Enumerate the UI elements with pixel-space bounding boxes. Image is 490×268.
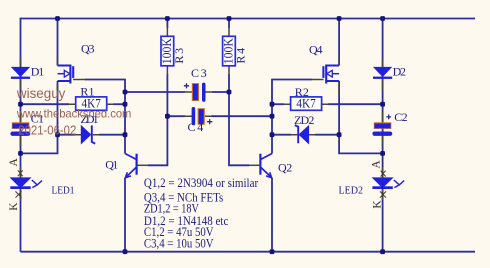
svg-text:K: K bbox=[8, 202, 20, 211]
wire R3 column to Q1 base bbox=[148, 74, 167, 165]
label Q1 bbox=[105, 158, 118, 172]
junction dot left column R1 bbox=[18, 102, 23, 107]
LED1 pin number marks bbox=[16, 170, 23, 197]
zener diode ZD2 bbox=[290, 125, 316, 143]
note line 4 bbox=[144, 214, 229, 228]
LED2 bbox=[372, 167, 404, 200]
svg-text:A: A bbox=[8, 158, 20, 167]
svg-text:2021-06-02: 2021-06-02 bbox=[18, 124, 76, 138]
junction dot top rail R3 bbox=[165, 16, 170, 21]
junction dot left column LED1 anode bbox=[18, 151, 23, 156]
capacitor C3 bbox=[184, 83, 213, 102]
watermark www.thebackshed.com bbox=[16, 107, 131, 121]
svg-text:LED1: LED1 bbox=[52, 185, 75, 197]
label C2 bbox=[394, 110, 407, 124]
label LED2 pin K bbox=[372, 200, 384, 209]
diode D2 bbox=[373, 59, 392, 90]
wire R4 top pin stub bbox=[228, 19, 230, 29]
svg-text:R3: R3 bbox=[172, 48, 186, 64]
junction dot node X1 R1 bbox=[123, 102, 128, 107]
note line 5 bbox=[144, 225, 214, 239]
watermark date 2021-06-02 bbox=[18, 124, 76, 138]
note line 2 bbox=[144, 191, 224, 205]
wire Q3 source to LED1 anode node bbox=[21, 135, 58, 154]
junction dot R3 C4 bbox=[165, 114, 170, 119]
junction dot top rail R4 bbox=[227, 16, 232, 21]
wire ZD1 row bbox=[58, 134, 126, 136]
svg-text:C3: C3 bbox=[191, 66, 207, 80]
junction dot right column LED2 anode bbox=[380, 151, 385, 156]
svg-text:C4: C4 bbox=[188, 120, 204, 134]
label LED1 pin K bbox=[8, 202, 20, 211]
wire R1 row bbox=[21, 103, 126, 105]
svg-text:A: A bbox=[370, 160, 382, 169]
svg-text:R1: R1 bbox=[80, 84, 94, 98]
label Q3 bbox=[81, 41, 95, 55]
svg-text:D1: D1 bbox=[31, 64, 44, 78]
capacitor C1 bbox=[10, 112, 30, 146]
wire bottom ground rail bbox=[21, 251, 476, 253]
svg-text:Q1: Q1 bbox=[105, 158, 118, 172]
label LED1 bbox=[52, 185, 75, 197]
wire R3 top pin stub bbox=[166, 19, 168, 29]
svg-text:R4: R4 bbox=[234, 48, 248, 64]
junction dot top rail Q3 bbox=[55, 16, 60, 21]
label D2 bbox=[393, 65, 406, 79]
diode D1 bbox=[11, 59, 30, 90]
label R1 bbox=[80, 84, 94, 98]
junction dot bottom rail Q2 bbox=[270, 249, 275, 254]
label C4 bbox=[188, 120, 204, 134]
svg-text:Q3: Q3 bbox=[81, 41, 95, 55]
capacitor C4 bbox=[184, 107, 212, 125]
wire R4 column to Q2 base bbox=[229, 74, 249, 165]
svg-text:ZD2: ZD2 bbox=[294, 113, 314, 127]
junction dot right column R2 bbox=[380, 102, 385, 107]
junction dot R4 C3 bbox=[227, 90, 232, 95]
label ZD2 bbox=[294, 113, 314, 127]
junction dot node X2 ZD2 bbox=[270, 132, 275, 137]
wire R2 row bbox=[272, 103, 383, 105]
transistor Q3 NCh FET bbox=[58, 58, 87, 95]
resistor R3 bbox=[160, 27, 174, 75]
wire node X2 column bbox=[271, 104, 273, 153]
label ZD1 bbox=[80, 112, 98, 126]
resistor R4 bbox=[222, 27, 236, 75]
watermark wiseguy bbox=[16, 85, 65, 101]
junction dot Q3 source ZD1 bbox=[55, 132, 60, 137]
wire Q3 drain-source column bbox=[57, 19, 59, 135]
wire Q4 source to LED2 anode node bbox=[339, 135, 383, 154]
svg-text:Q2: Q2 bbox=[278, 161, 292, 175]
junction dot bottom rail LED2 bbox=[380, 249, 385, 254]
junction dot node X2 C4 bbox=[270, 114, 275, 119]
wire Q1 emitter to bottom rail bbox=[124, 178, 126, 252]
junction dot node X1 ZD1 bbox=[123, 132, 128, 137]
wire Q2 emitter to bottom rail bbox=[271, 178, 273, 252]
label D1 bbox=[31, 64, 44, 78]
svg-text:LED2: LED2 bbox=[339, 185, 364, 197]
svg-text:R2: R2 bbox=[295, 85, 309, 99]
label R4 bbox=[234, 48, 248, 64]
transistor Q4 NCh FET bbox=[312, 58, 339, 95]
wire ZD2 row bbox=[272, 134, 339, 136]
LED1 bbox=[10, 167, 42, 200]
label C3 bbox=[191, 66, 207, 80]
label LED2 bbox=[339, 185, 364, 197]
junction dot Q4 source ZD2 bbox=[337, 132, 342, 137]
junction dot top rail Q4 bbox=[337, 16, 342, 21]
svg-text:K: K bbox=[372, 200, 384, 209]
svg-text:C3,4 = 10u 50V: C3,4 = 10u 50V bbox=[144, 236, 214, 250]
note line 3 bbox=[144, 202, 199, 216]
label C1 bbox=[31, 112, 44, 126]
label Q2 bbox=[278, 161, 292, 175]
wire Q4 gate lead to node X2 bbox=[272, 80, 312, 105]
zener diode ZD1 bbox=[74, 125, 100, 143]
wire C4 row bbox=[167, 115, 272, 117]
junction dot top rail D2 bbox=[380, 16, 385, 21]
label LED2 pin A bbox=[370, 160, 382, 169]
note line 1 bbox=[144, 176, 258, 190]
svg-text:wiseguy: wiseguy bbox=[16, 85, 65, 101]
transistor Q1 bbox=[125, 154, 148, 178]
wire node X1 column bbox=[124, 92, 126, 154]
wire Q3 gate lead to node X1 bbox=[85, 80, 125, 93]
svg-text:Q1,2 = 2N3904 or similar: Q1,2 = 2N3904 or similar bbox=[144, 176, 258, 190]
label LED1 pin A bbox=[8, 158, 20, 167]
svg-text:Q4: Q4 bbox=[309, 43, 323, 57]
transistor Q2 bbox=[249, 154, 272, 178]
note line 6 bbox=[144, 236, 214, 250]
wire Q4 drain-source column bbox=[338, 19, 340, 135]
resistor R1 bbox=[68, 96, 114, 110]
label Q4 bbox=[309, 43, 323, 57]
capacitor C2 bbox=[372, 112, 392, 146]
LED2 pin number marks bbox=[380, 171, 386, 198]
svg-text:C2: C2 bbox=[394, 110, 407, 124]
junction dot node X1 C3 bbox=[123, 90, 128, 95]
wire C3 row bbox=[125, 91, 229, 93]
svg-text:D2: D2 bbox=[393, 65, 406, 79]
svg-text:www.thebackshed.com: www.thebackshed.com bbox=[16, 107, 131, 121]
resistor R2 bbox=[283, 96, 329, 110]
wire right column bbox=[382, 19, 384, 252]
junction dot node X2 R2 bbox=[270, 102, 275, 107]
wire top supply rail bbox=[21, 18, 476, 20]
label R2 bbox=[295, 85, 309, 99]
label R3 bbox=[172, 48, 186, 64]
junction dot bottom rail Q1 bbox=[123, 249, 128, 254]
wire left column bbox=[20, 18, 22, 252]
